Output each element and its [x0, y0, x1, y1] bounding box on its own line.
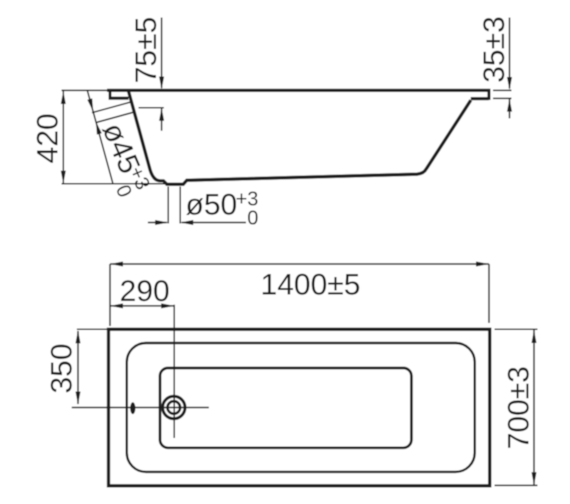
dimension 75+-5 line [161, 18, 163, 89]
dimension 35+-3 arrow up [509, 99, 511, 118]
dimension 700 extension bottom [495, 484, 538, 486]
svg-text:ø50: ø50 [186, 189, 238, 222]
dimension o50 arrow left [148, 222, 167, 224]
tub side profile rim top line [107, 89, 490, 92]
svg-text:700±3: 700±3 [502, 366, 535, 449]
svg-text:420: 420 [32, 113, 65, 163]
overflow level arrow up [161, 109, 163, 131]
left rim notch [109, 92, 129, 100]
dimension 350 line [77, 331, 79, 404]
svg-text:0: 0 [247, 208, 258, 230]
dimension o45 extension line lower [96, 112, 135, 123]
drain outer circle [163, 396, 185, 418]
dimension 35+-3 arrow down [507, 77, 512, 90]
dimension o50 tick left [167, 187, 169, 224]
dimension 700 line [533, 329, 535, 486]
tub plan floor rect [160, 368, 411, 448]
dimension 35+-3 extension top [493, 89, 512, 91]
tub plan inner rim rounded rect [127, 343, 475, 472]
dimension o45 arrow lower [93, 121, 101, 135]
dimension 420 arrow up [61, 91, 66, 104]
bottom extension line [62, 183, 167, 185]
overflow hole oval [130, 402, 135, 414]
dimension o45 line [87, 90, 113, 183]
dimension 35+-3 line [509, 18, 511, 89]
dimension 420 line [62, 91, 64, 184]
rim extension thin line left [62, 89, 109, 91]
dimension 1400 extension right [488, 264, 490, 323]
dimension 1400 extension left [109, 264, 111, 326]
right rim ledge [471, 97, 489, 100]
dimension 700 extension top [495, 328, 538, 330]
dimension 35+-3 extension bottom [493, 97, 512, 99]
svg-text:290: 290 [120, 275, 170, 308]
drain centerline vertical / 290 extension [173, 305, 175, 438]
drain inner circle [168, 401, 181, 414]
dimension o50 tick right [179, 187, 181, 224]
dimension o45 extension line upper [92, 102, 132, 113]
tub plan outer rect [109, 329, 490, 486]
svg-text:350: 350 [46, 343, 79, 393]
dimension o45 arrow upper [87, 98, 95, 112]
right rim edge bar [487, 89, 490, 100]
svg-text:1400±5: 1400±5 [261, 269, 361, 302]
tub side profile left wall and bottom [129, 92, 471, 185]
dimension o45 text [87, 118, 154, 201]
drain centerline horizontal [72, 407, 209, 409]
dimension 75+-5 arrow down [159, 77, 164, 90]
dimension 350 extension top [77, 328, 108, 330]
dimension 420 arrow down [61, 171, 66, 184]
dimension o50 leader line [182, 222, 247, 224]
svg-text:75±5: 75±5 [130, 17, 163, 84]
dimension 1400 line [110, 263, 489, 265]
svg-text:35±3: 35±3 [478, 16, 511, 83]
overflow level tick [139, 107, 164, 109]
dimension 290 line [110, 305, 174, 307]
